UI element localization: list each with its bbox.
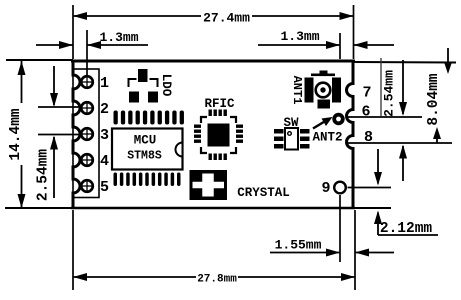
svg-text:1: 1 <box>100 75 109 92</box>
dimension 2.54mm left <box>36 66 59 201</box>
svg-text:27.4mm: 27.4mm <box>203 11 250 26</box>
wire ext line pin3 left <box>38 134 80 136</box>
node pin 9 <box>321 180 345 197</box>
svg-text:MCU: MCU <box>134 134 157 148</box>
svg-text:2: 2 <box>100 101 109 118</box>
node pin 2 <box>80 101 109 118</box>
wire ext line pin9 bottom <box>339 195 341 262</box>
connector ANT2 pad <box>334 115 343 124</box>
svg-text:8.04mm: 8.04mm <box>426 73 442 126</box>
dimension 2.54mm right <box>382 60 408 181</box>
dimension 27.8mm <box>73 273 355 286</box>
wire ext line pin2 left <box>38 106 80 108</box>
connector ANT1 <box>290 71 341 109</box>
node pin header box <box>73 69 99 198</box>
dimension 1.55mm <box>270 238 394 257</box>
node pin 1 <box>80 75 109 92</box>
dimension 27.4mm <box>73 11 354 26</box>
wire ext line pin col left <box>86 30 88 75</box>
transistor U3 RFIC <box>194 97 243 160</box>
wire ANT2 arrow <box>312 117 342 145</box>
regulator U2 LDO pads <box>129 69 174 103</box>
dimension 1.3mm left <box>36 30 148 49</box>
node pin 5 <box>80 179 109 196</box>
node MCU top pins <box>114 111 184 125</box>
wire ext line pin8 right <box>346 142 452 144</box>
svg-text:1.3mm: 1.3mm <box>280 29 319 44</box>
node pin 4 <box>80 153 109 170</box>
wire ext line 27.4 left <box>72 5 74 59</box>
svg-text:9: 9 <box>321 180 330 197</box>
svg-text:2.12mm: 2.12mm <box>380 221 433 237</box>
svg-text:7: 7 <box>362 85 371 102</box>
svg-text:2.54mm: 2.54mm <box>36 149 52 202</box>
wire ext line 27.8 right <box>354 210 356 290</box>
wire board top edge <box>6 60 456 63</box>
wire board bottom edge <box>5 207 391 209</box>
wire ext line pin6 right <box>346 116 422 118</box>
svg-text:STM8S: STM8S <box>127 150 162 163</box>
svg-text:27.8mm: 27.8mm <box>197 274 237 286</box>
svg-text:1.55mm: 1.55mm <box>275 238 322 253</box>
svg-text:ANT1: ANT1 <box>290 76 304 105</box>
svg-text:LDO: LDO <box>159 74 173 97</box>
wire ext line pin col right <box>339 33 341 59</box>
svg-text:3: 3 <box>100 127 109 144</box>
svg-text:ANT2: ANT2 <box>312 131 342 145</box>
wire board left edge with castellations <box>73 61 80 208</box>
wire ext line pin9 right <box>348 187 392 189</box>
op-amp U1 MCU STM8S <box>112 129 183 170</box>
dimension 14.4mm <box>8 61 26 208</box>
wire ext line 27.8 left <box>72 210 74 290</box>
node MCU bottom pins <box>114 173 181 187</box>
wire ext line 27.4 right <box>353 5 355 59</box>
dimension 8.04mm <box>426 48 452 143</box>
svg-text:1.3mm: 1.3mm <box>99 30 138 45</box>
svg-text:CRYSTAL: CRYSTAL <box>237 186 290 200</box>
capacitor Y1 crystal <box>190 170 290 200</box>
dimension 2.12mm <box>374 149 438 237</box>
svg-text:5: 5 <box>100 179 109 196</box>
node pin 3 <box>80 127 109 144</box>
wire board right edge with castellations <box>347 61 354 208</box>
wire vertical tick right labels <box>380 58 382 116</box>
transistor SW <box>274 116 310 150</box>
svg-text:2.54mm: 2.54mm <box>382 70 397 117</box>
svg-text:14.4mm: 14.4mm <box>8 108 24 161</box>
svg-text:RFIC: RFIC <box>204 97 235 111</box>
dimension 1.3mm right <box>258 29 394 49</box>
svg-text:6: 6 <box>361 104 370 121</box>
svg-text:4: 4 <box>100 153 109 170</box>
